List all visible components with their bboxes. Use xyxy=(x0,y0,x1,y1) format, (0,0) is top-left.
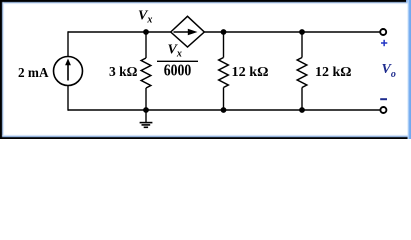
svg-text:6000: 6000 xyxy=(164,61,192,80)
wire top rail left segment xyxy=(68,31,171,33)
svg-text:Vx: Vx xyxy=(138,9,152,26)
plus sign xyxy=(381,40,387,46)
node 12k #1 bottom xyxy=(221,107,227,113)
current source I1 circle xyxy=(54,57,83,86)
wire left branch lower xyxy=(67,86,69,111)
svg-text:Vo: Vo xyxy=(382,62,396,80)
node 12k #2 bottom xyxy=(299,107,305,113)
dependent source arrow xyxy=(174,29,198,35)
terminal top open circle xyxy=(380,29,386,35)
border black left xyxy=(0,0,3,139)
wire 12k #1 branch upper xyxy=(223,32,225,58)
svg-text:3 kΩ: 3 kΩ xyxy=(109,64,138,79)
svg-text:12 kΩ: 12 kΩ xyxy=(232,64,269,79)
node 12k #2 top xyxy=(299,29,305,35)
node 12k #1 top xyxy=(221,29,227,35)
border blue right xyxy=(405,0,411,139)
svg-text:2 mA: 2 mA xyxy=(18,66,49,81)
ground xyxy=(140,110,153,127)
svg-text:Vx: Vx xyxy=(168,43,182,60)
wire 12k #1 branch lower xyxy=(223,88,225,111)
resistor 12 kohm #1 zigzag xyxy=(219,58,229,88)
svg-text:12 kΩ: 12 kΩ xyxy=(315,64,352,79)
wire top rail right segment xyxy=(204,31,380,33)
border black bottom xyxy=(0,136,411,139)
node 3k bottom (ground junction) xyxy=(143,107,149,113)
wire 3k branch lower xyxy=(145,88,147,110)
terminal bottom open circle xyxy=(380,107,386,113)
wire bottom rail xyxy=(68,109,380,111)
wire 12k #2 branch upper xyxy=(301,32,303,58)
border black top xyxy=(0,0,406,3)
border blue glow left xyxy=(0,0,6,139)
border blue glow bottom xyxy=(0,133,411,139)
wire 12k #2 branch lower xyxy=(301,88,303,111)
current source arrow xyxy=(65,59,71,81)
wire left branch upper xyxy=(67,31,69,56)
minus sign xyxy=(380,98,387,100)
resistor 12 kohm #2 zigzag xyxy=(297,58,307,88)
border blue glow top xyxy=(0,0,411,6)
fraction bar xyxy=(157,60,198,62)
dependent source diamond xyxy=(171,16,205,47)
resistor 3 kohm zigzag xyxy=(141,58,151,88)
node Vx top xyxy=(143,29,149,35)
wire 3k branch upper xyxy=(145,32,147,58)
